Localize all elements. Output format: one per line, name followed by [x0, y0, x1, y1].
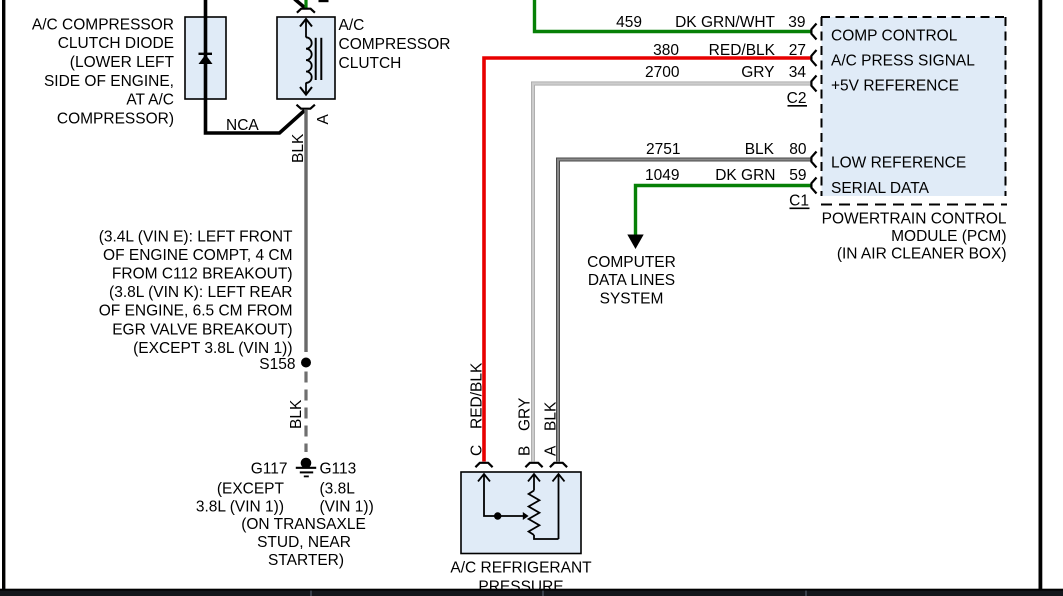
label pin names inside PCM: [831, 28, 975, 198]
clutch plate line 2: [320, 38, 322, 80]
svg-text:DK GRN: DK GRN: [715, 167, 775, 184]
svg-text:AT A/C: AT A/C: [126, 92, 174, 109]
sensor pin C shaft: [484, 475, 523, 517]
PCM box fill: [822, 17, 1007, 196]
svg-text:(LOWER LEFT: (LOWER LEFT: [70, 54, 175, 71]
svg-text:A: A: [543, 445, 560, 456]
wire BLK gray from clutch pin A down to S158: [304, 110, 307, 352]
svg-text:GRY: GRY: [741, 64, 774, 81]
wire GRY +5V reference 2700 core: [533, 84, 812, 462]
svg-text:COMPRESSOR): COMPRESSOR): [57, 110, 174, 127]
svg-text:G113: G113: [320, 460, 357, 477]
svg-text:GRY: GRY: [517, 398, 534, 431]
svg-text:27: 27: [789, 42, 806, 59]
connector half below clutch box pin A: [297, 105, 315, 109]
svg-text:3.8L (VIN 1)): 3.8L (VIN 1)): [196, 499, 284, 516]
sensor wiper arrowhead: [523, 512, 529, 520]
svg-text:G117: G117: [251, 460, 288, 477]
label circuit 1049 DK GRN 59: [645, 167, 806, 184]
clutch coil bottom arrow: [300, 87, 312, 95]
connector sensor pin A: [550, 463, 567, 467]
label location note 3.4L/3.8L: [99, 228, 293, 357]
svg-text:RED/BLK: RED/BLK: [469, 362, 486, 429]
svg-text:LOW REFERENCE: LOW REFERENCE: [831, 155, 966, 172]
svg-text:BLK: BLK: [290, 133, 307, 163]
bottom bar divider 2: [542, 591, 544, 596]
svg-text:(EXCEPT 3.8L (VIN 1)): (EXCEPT 3.8L (VIN 1)): [133, 340, 292, 357]
connector C2 pin 27: [811, 50, 816, 66]
svg-text:A/C REFRIGERANT: A/C REFRIGERANT: [450, 560, 592, 577]
svg-text:CLUTCH DIODE: CLUTCH DIODE: [58, 35, 174, 52]
svg-text:A/C PRESS SIGNAL: A/C PRESS SIGNAL: [831, 52, 975, 69]
wire DK GRN serial data 1049: [636, 186, 812, 235]
label ground G117: [196, 460, 288, 515]
arrowhead to computer data lines: [627, 235, 643, 250]
ground bar 2: [300, 471, 313, 473]
bottom bar divider 1: [310, 591, 312, 596]
svg-text:FROM C112 BREAKOUT): FROM C112 BREAKOUT): [112, 266, 293, 283]
connector sensor pin B: [525, 463, 542, 467]
svg-text:59: 59: [789, 167, 806, 184]
svg-text:NCA: NCA: [226, 117, 259, 134]
svg-text:SYSTEM: SYSTEM: [600, 291, 664, 308]
wire thick black diagonal at top of clutch: [295, 0, 306, 8]
diagram right frame border: [1039, 0, 1043, 596]
svg-text:39: 39: [788, 14, 805, 31]
svg-text:SIDE OF ENGINE,: SIDE OF ENGINE,: [44, 73, 174, 90]
sensor pin B arrow up: [528, 474, 540, 481]
svg-text:380: 380: [653, 42, 679, 59]
svg-text:POWERTRAIN CONTROL: POWERTRAIN CONTROL: [822, 211, 1007, 228]
connector C2 pin 34: [811, 76, 816, 92]
wire red A/C press signal 380: [484, 58, 812, 462]
sensor pin C arrow up: [478, 474, 490, 481]
diode CR symbol cathode bar: [199, 53, 213, 55]
sensor junction dot: [494, 512, 501, 519]
underline C1: [790, 207, 810, 209]
svg-text:DATA LINES: DATA LINES: [588, 272, 675, 289]
svg-text:S158: S158: [259, 356, 295, 373]
sensor resistor zigzag: [529, 491, 540, 536]
label circuit 380 RED/BLK 27: [653, 42, 806, 59]
svg-text:(ON TRANSAXLE: (ON TRANSAXLE: [241, 516, 366, 533]
wire BLK low reference 2751 under-layer: [558, 160, 812, 462]
svg-text:STARTER): STARTER): [268, 552, 344, 569]
connector C1 pin 80: [811, 152, 816, 168]
svg-text:(3.8L (VIN K): LEFT REAR: (3.8L (VIN K): LEFT REAR: [109, 284, 292, 301]
bottom frame bar top line: [0, 589, 1063, 591]
sensor resistor bottom link to pin A: [534, 535, 559, 539]
sensor pin B shaft: [533, 475, 535, 491]
svg-text:(3.4L (VIN E): LEFT FRONT: (3.4L (VIN E): LEFT FRONT: [99, 228, 293, 245]
ground bar 1: [296, 467, 316, 469]
svg-text:EGR VALVE BREAKOUT): EGR VALVE BREAKOUT): [112, 321, 292, 338]
label A/C COMPRESSOR CLUTCH: [339, 17, 451, 72]
connector half above clutch box: [297, 9, 315, 13]
clutch coil center line: [305, 20, 307, 38]
svg-text:BLK: BLK: [288, 399, 305, 429]
svg-text:(VIN 1)): (VIN 1)): [320, 499, 374, 516]
label circuit 459 DK GRN/WHT 39: [616, 14, 805, 31]
wire green COMP CONTROL 459: [535, 0, 812, 32]
clutch box A/C compressor clutch: [277, 17, 335, 99]
svg-text:+5V REFERENCE: +5V REFERENCE: [831, 78, 959, 95]
svg-text:B: B: [517, 446, 534, 456]
svg-text:A: A: [315, 114, 332, 125]
svg-text:SERIAL DATA: SERIAL DATA: [831, 180, 930, 197]
PCM box dashed border left: [821, 17, 823, 196]
bottom bar divider 3: [805, 591, 807, 596]
clutch coil arcs: [306, 37, 312, 83]
diode CR symbol anode triangle: [199, 55, 213, 65]
label ground G113: [320, 460, 374, 515]
label circuit 2751 BLK 80: [646, 141, 807, 158]
label COMPUTER DATA LINES SYSTEM: [587, 254, 676, 307]
bottom frame bar: [0, 589, 1063, 596]
label ground location note: [241, 516, 366, 569]
svg-text:BLK: BLK: [543, 401, 560, 431]
svg-text:(IN AIR CLEANER BOX): (IN AIR CLEANER BOX): [837, 246, 1007, 263]
svg-text:(EXCEPT: (EXCEPT: [217, 480, 285, 497]
connector C2 pin 39: [811, 24, 816, 40]
label POWERTRAIN CONTROL MODULE (PCM) (IN AIR CLEANER BOX): [822, 211, 1007, 263]
PCM box dashed border bottom: [821, 204, 1007, 206]
PCM box dashed border top: [821, 16, 1006, 18]
diode box A/C compressor clutch diode: [185, 17, 226, 99]
svg-text:(3.8L: (3.8L: [320, 480, 356, 497]
sensor box A/C refrigerant pressure sensor: [461, 472, 581, 554]
svg-text:C1: C1: [789, 193, 809, 210]
diagram left frame border: [2, 0, 5, 596]
clutch plate line 1: [315, 38, 317, 80]
svg-text:1049: 1049: [645, 167, 679, 184]
svg-text:2751: 2751: [646, 141, 680, 158]
svg-text:2700: 2700: [645, 64, 680, 81]
stub black element top: [319, 0, 329, 2]
label circuit 2700 GRY 34: [645, 64, 806, 81]
clutch coil center line lower: [305, 83, 307, 95]
svg-text:RED/BLK: RED/BLK: [709, 42, 776, 59]
svg-text:A/C COMPRESSOR: A/C COMPRESSOR: [32, 16, 174, 33]
connector C1 pin 59: [811, 178, 816, 194]
underline C2: [788, 105, 808, 107]
svg-text:459: 459: [616, 14, 642, 31]
svg-text:C2: C2: [787, 90, 807, 107]
svg-text:OF ENGINE COMPT, 4 CM: OF ENGINE COMPT, 4 CM: [103, 247, 292, 264]
svg-text:OF ENGINE, 6.5 CM FROM: OF ENGINE, 6.5 CM FROM: [99, 303, 293, 320]
svg-text:DK GRN/WHT: DK GRN/WHT: [675, 14, 775, 31]
sensor pin A arrow up: [553, 474, 565, 481]
clutch coil top arrow: [300, 19, 312, 27]
label A/C REFRIGERANT PRESSURE: [450, 560, 592, 596]
svg-text:34: 34: [789, 64, 807, 81]
svg-text:COMPUTER: COMPUTER: [587, 254, 676, 271]
svg-text:COMPRESSOR: COMPRESSOR: [339, 36, 451, 53]
splice S158 dot: [301, 358, 311, 368]
wire BLK low reference 2751 core: [558, 160, 812, 462]
svg-text:COMP CONTROL: COMP CONTROL: [831, 28, 958, 45]
svg-text:BLK: BLK: [745, 141, 775, 158]
svg-text:CLUTCH: CLUTCH: [339, 55, 402, 72]
svg-text:A/C: A/C: [339, 17, 365, 34]
svg-text:STUD, NEAR: STUD, NEAR: [257, 534, 351, 551]
ground G117/G113 dot: [301, 458, 312, 469]
svg-text:C: C: [469, 445, 486, 456]
wire green segment above clutch connector: [304, 0, 307, 8]
ground bar 3: [304, 475, 309, 477]
wire BLK dashed from S158 to ground: [304, 372, 307, 453]
wire GRY +5V reference 2700 under-layer: [533, 84, 812, 462]
sensor pin A shaft: [558, 475, 560, 540]
label A/C COMPRESSOR CLUTCH DIODE (LOWER LEFT SIDE OF ENGINE, AT A/C COMPRESSOR): [32, 16, 175, 127]
svg-text:80: 80: [789, 141, 807, 158]
wire thick black feed through diode to NCA: [206, 0, 305, 133]
svg-text:MODULE (PCM): MODULE (PCM): [891, 228, 1006, 245]
PCM box dashed border right: [1005, 17, 1007, 196]
connector sensor pin C: [475, 463, 492, 467]
